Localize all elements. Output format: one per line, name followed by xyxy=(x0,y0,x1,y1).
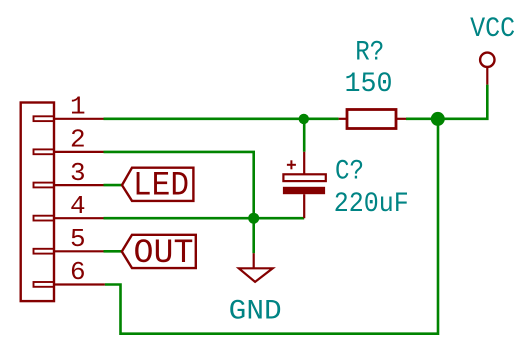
svg-text:R?: R? xyxy=(355,38,384,69)
svg-text:VCC: VCC xyxy=(470,14,515,45)
svg-text:6: 6 xyxy=(70,257,86,287)
wire pin3 to LED label xyxy=(104,184,123,187)
svg-text:5: 5 xyxy=(70,224,86,254)
wire junction A to capacitor top xyxy=(303,119,306,152)
svg-text:1: 1 xyxy=(70,92,86,122)
global label LED xyxy=(122,167,193,205)
junction node B xyxy=(431,112,445,126)
pin 3 xyxy=(54,158,104,188)
wire pin6 loop to node B xyxy=(105,119,438,334)
wire pin1 to resistor xyxy=(104,118,339,121)
svg-text:C?: C? xyxy=(335,157,364,188)
svg-text:2: 2 xyxy=(70,125,86,155)
junction ground node xyxy=(248,213,259,224)
svg-text:GND: GND xyxy=(229,296,282,327)
svg-text:4: 4 xyxy=(70,191,86,221)
pin 2 xyxy=(54,125,104,155)
pin 1 xyxy=(54,92,104,122)
wire pin5 to OUT label xyxy=(104,250,123,253)
svg-text:3: 3 xyxy=(70,158,86,188)
svg-text:OUT: OUT xyxy=(134,235,194,273)
junction node A xyxy=(299,114,309,124)
global label OUT xyxy=(122,235,196,273)
capacitor C1 xyxy=(283,152,326,218)
svg-text:220uF: 220uF xyxy=(334,189,409,220)
wire resistor to corner and VCC xyxy=(406,85,487,119)
pin 4 xyxy=(54,191,104,221)
pin 5 xyxy=(54,224,104,254)
svg-text:LED: LED xyxy=(133,167,189,205)
connector J1 body xyxy=(21,103,54,302)
power symbol VCC xyxy=(480,53,494,85)
ground symbol GND xyxy=(239,253,273,282)
wire pin2 to ground junction xyxy=(104,152,254,253)
svg-text:150: 150 xyxy=(345,69,393,100)
resistor R1 xyxy=(339,110,406,129)
pin 6 xyxy=(54,257,105,287)
wire pin4 to capacitor bottom xyxy=(104,217,305,220)
